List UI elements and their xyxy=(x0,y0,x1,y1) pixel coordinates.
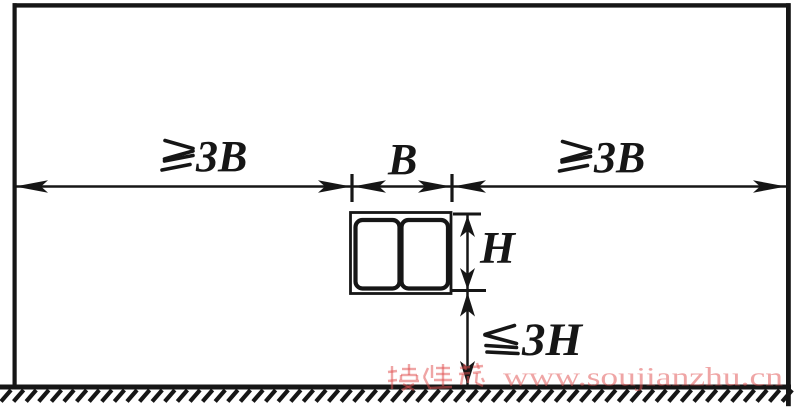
3H dimension vertical line xyxy=(466,292,469,385)
svg-text:B: B xyxy=(387,135,417,184)
H dimension top tick xyxy=(453,213,481,216)
left label geq symbol xyxy=(162,141,193,171)
right label geq symbol xyxy=(560,142,591,172)
tick at left side of B xyxy=(350,174,353,202)
watermark xyxy=(388,363,783,392)
svg-text:3H: 3H xyxy=(521,314,584,366)
frame top border xyxy=(13,3,791,7)
3H dimension down arrow xyxy=(460,361,475,385)
arrow at right tick pointing left xyxy=(453,180,486,192)
ground line xyxy=(0,385,791,390)
svg-text:www.soujianzhu.cn: www.soujianzhu.cn xyxy=(503,363,783,392)
arrow in B segment pointing left xyxy=(353,180,386,192)
svg-text:H: H xyxy=(479,223,517,273)
arrow at left tick pointing right xyxy=(318,180,351,192)
frame left border xyxy=(13,3,17,387)
watermark char jian xyxy=(424,364,452,389)
H dimension up arrow xyxy=(460,216,475,238)
box culvert right cell xyxy=(402,220,449,289)
svg-text:3B: 3B xyxy=(593,133,645,182)
arrow at right border pointing right xyxy=(753,180,786,192)
ground hatching xyxy=(1,390,792,402)
frame right border xyxy=(786,3,791,406)
dimension line left segment xyxy=(16,185,352,188)
watermark char sou xyxy=(388,364,419,390)
H dimension down arrow xyxy=(460,268,475,290)
arrow in B segment pointing right xyxy=(418,180,451,192)
svg-text:3B: 3B xyxy=(195,132,247,181)
tick at right side of B xyxy=(450,174,453,202)
box culvert left cell xyxy=(356,220,400,289)
dimension line B segment xyxy=(352,185,452,188)
arrow at left border pointing left xyxy=(15,180,48,192)
H dimension bottom tick xyxy=(452,289,486,292)
H dimension vertical line xyxy=(466,215,469,290)
dimension line right segment xyxy=(452,185,786,188)
watermark char zhu xyxy=(459,363,484,386)
3H dimension up arrow xyxy=(460,293,475,317)
label leq symbol xyxy=(485,326,518,354)
box culvert outer rectangle xyxy=(351,213,452,294)
